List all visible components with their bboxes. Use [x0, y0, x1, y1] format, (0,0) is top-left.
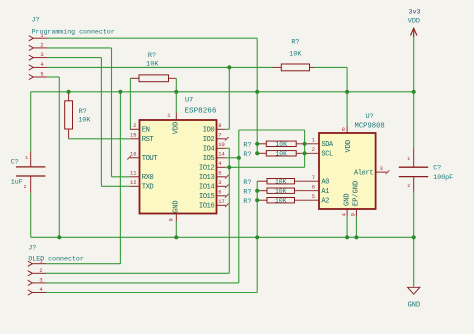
- svg-text:5: 5: [312, 194, 315, 200]
- op-amp U7 ESP8266 body: [140, 97, 217, 214]
- power symbol VDD 3v3: [408, 9, 421, 92]
- resistor R? 10K (A0 pull-down): [243, 179, 319, 187]
- wire pin5 to GND rail: [47, 77, 59, 237]
- U7 pin 2 EN: [130, 123, 150, 134]
- connector J? pin 3: [29, 52, 47, 60]
- svg-text:1: 1: [39, 258, 42, 264]
- wire IO5 lead and down to OLED pin3: [226, 158, 239, 283]
- svg-text:IO14: IO14: [199, 184, 214, 192]
- resistor R? 10K (A2 pull-down): [243, 198, 319, 206]
- svg-text:1uF: 1uF: [11, 178, 23, 185]
- U7 pin 6 IO15: [199, 190, 229, 201]
- U7 pin 4 IO12: [199, 161, 226, 172]
- svg-text:SDA: SDA: [321, 141, 334, 149]
- svg-text:1: 1: [167, 113, 170, 119]
- svg-text:2: 2: [39, 268, 42, 274]
- svg-text:2: 2: [40, 43, 43, 49]
- svg-text:11: 11: [130, 171, 136, 177]
- svg-text:EP/GND: EP/GND: [352, 181, 360, 206]
- connector J? (OLED) labels: [28, 245, 83, 263]
- U7 pin 16 TOUT: [127, 152, 158, 163]
- svg-text:2: 2: [407, 183, 410, 189]
- U? pin 1 SDA: [312, 138, 334, 150]
- wire EN vertical: [129, 78, 131, 129]
- wire IO4 down to IO12 junction and OLED pin2: [226, 148, 230, 273]
- svg-text:6: 6: [218, 190, 221, 196]
- U7 pin 12 TXD: [130, 180, 153, 191]
- connector J? pin 2: [29, 43, 47, 51]
- svg-text:7: 7: [218, 133, 221, 139]
- wire OLED pin4 to GND rail: [46, 237, 257, 292]
- svg-text:J?: J?: [32, 17, 40, 24]
- svg-text:9: 9: [168, 218, 174, 221]
- svg-text:10: 10: [218, 142, 224, 148]
- svg-text:1: 1: [407, 156, 410, 162]
- svg-text:2: 2: [24, 184, 27, 190]
- svg-text:16: 16: [130, 152, 136, 158]
- wire U? GND pins to rail: [347, 217, 356, 238]
- svg-text:C?: C?: [11, 159, 19, 166]
- svg-text:R?: R?: [243, 198, 251, 206]
- svg-text:3: 3: [39, 278, 42, 284]
- resistor R? 10K (SDA pull-up): [243, 141, 319, 149]
- svg-text:IO13: IO13: [199, 174, 214, 182]
- svg-text:TXD: TXD: [142, 184, 154, 192]
- OLED connector J? pin 1: [28, 258, 46, 266]
- svg-text:10K: 10K: [78, 117, 91, 125]
- U7 pin 7 IO2: [203, 133, 229, 144]
- U? pin 6 A1: [312, 185, 329, 197]
- wire OLED pin1 to VDD rail: [46, 92, 120, 264]
- wire IO0 up to pin4 net: [226, 67, 230, 129]
- svg-text:5: 5: [218, 171, 221, 177]
- connector J? pin 1: [29, 33, 47, 41]
- svg-text:R?: R?: [79, 108, 87, 116]
- svg-text:14: 14: [218, 152, 224, 158]
- U7 pin 10 IO4: [203, 142, 226, 153]
- svg-text:EN: EN: [142, 127, 150, 135]
- svg-text:J?: J?: [28, 245, 36, 252]
- svg-text:15: 15: [130, 133, 136, 139]
- svg-text:17: 17: [218, 199, 224, 205]
- svg-text:8: 8: [218, 123, 221, 129]
- resistor R? 10K (SCL pull-up): [243, 151, 319, 159]
- wire pin4 to resistor R? (IO0 net): [47, 66, 273, 68]
- U7 pin 9 GND: [168, 200, 180, 221]
- svg-text:VDD: VDD: [345, 140, 353, 153]
- svg-text:IO12: IO12: [199, 165, 214, 173]
- svg-text:A2: A2: [321, 198, 329, 206]
- svg-text:OLED connector: OLED connector: [28, 256, 83, 263]
- svg-text:5: 5: [40, 72, 43, 78]
- svg-text:6: 6: [312, 185, 315, 191]
- U7 pin 1 VDD: [167, 113, 180, 135]
- wire pin2 to RX0: [47, 48, 130, 177]
- resistor R? 10K (RST pull-up): [65, 92, 92, 139]
- wire IO12 lead: [226, 166, 230, 168]
- svg-text:IO5: IO5: [203, 155, 215, 163]
- connector J? pin 5: [29, 72, 47, 80]
- connector J? (programming) labels: [32, 17, 115, 36]
- U7 pin 8 IO0: [203, 123, 226, 134]
- svg-text:U7: U7: [185, 97, 193, 105]
- OLED connector J? pin 3: [28, 278, 46, 286]
- svg-text:10K: 10K: [275, 151, 287, 158]
- wire OLED pin3 to IO5 column: [46, 282, 239, 284]
- svg-text:GND: GND: [173, 200, 181, 213]
- svg-text:R?: R?: [243, 179, 251, 187]
- svg-text:10K: 10K: [275, 198, 287, 205]
- svg-text:4: 4: [39, 287, 42, 293]
- svg-text:4: 4: [341, 213, 347, 216]
- svg-text:IO0: IO0: [203, 127, 215, 135]
- svg-text:IO2: IO2: [203, 136, 215, 144]
- wire RST: [69, 138, 130, 140]
- svg-text:RX0: RX0: [142, 174, 154, 182]
- U? pin 4 GND: [341, 193, 351, 216]
- svg-text:10K: 10K: [275, 141, 287, 148]
- wire R-IO0 right to MCP VDD: [314, 67, 347, 126]
- svg-text:GND: GND: [408, 302, 421, 310]
- svg-text:10K: 10K: [275, 179, 287, 186]
- svg-text:Alert: Alert: [354, 170, 373, 178]
- svg-text:RST: RST: [142, 136, 155, 144]
- capacitor C? 1uF: [11, 92, 46, 238]
- svg-text:R?: R?: [243, 141, 251, 149]
- svg-text:3: 3: [218, 180, 221, 186]
- svg-text:3v3: 3v3: [408, 9, 420, 17]
- svg-text:SCL: SCL: [321, 151, 333, 159]
- U7 pin 15 RST: [130, 133, 154, 144]
- svg-text:9: 9: [351, 213, 357, 216]
- svg-text:10K: 10K: [275, 188, 287, 195]
- resistor R? 10K (EN pull-up): [130, 52, 176, 82]
- svg-text:IO15: IO15: [199, 193, 214, 201]
- svg-text:1: 1: [40, 33, 43, 39]
- OLED connector J? pin 4: [28, 287, 46, 295]
- svg-text:R?: R?: [291, 38, 299, 46]
- U? pin 2 SCL: [312, 147, 333, 159]
- U? pin 7 A0: [312, 175, 329, 187]
- svg-text:2: 2: [312, 147, 315, 153]
- capacitor C? 100pF: [399, 92, 453, 238]
- U? pin 9 EP/GND: [351, 181, 361, 217]
- wire A-resistors column to GND rail: [256, 181, 258, 237]
- svg-text:4: 4: [218, 161, 221, 167]
- ground: [408, 237, 421, 309]
- wire R-EN right to VDD pin: [175, 78, 177, 112]
- svg-text:VDD: VDD: [408, 17, 420, 25]
- svg-text:Programming connector: Programming connector: [32, 29, 115, 36]
- svg-text:R?: R?: [243, 151, 251, 159]
- svg-text:8: 8: [342, 127, 345, 133]
- OLED connector J? pin 2: [28, 268, 46, 276]
- svg-text:4: 4: [40, 62, 43, 68]
- svg-text:R?: R?: [148, 52, 156, 60]
- svg-text:10K: 10K: [146, 60, 159, 68]
- svg-text:1: 1: [312, 138, 315, 144]
- resistor R? 10K (A1 pull-down): [243, 188, 319, 196]
- U7 pin 5 IO13: [199, 171, 229, 182]
- connector J? pin 4: [29, 62, 47, 70]
- svg-text:R?: R?: [243, 188, 251, 196]
- U7 pin 11 RX0: [130, 171, 153, 182]
- wire OLED pin2 to IO4/IO12 column: [46, 272, 229, 274]
- U7 pin 17 IO16: [199, 199, 229, 210]
- svg-text:ESP8266: ESP8266: [185, 107, 217, 115]
- wire VDD rail: [31, 91, 414, 93]
- U7 pin 14 IO5: [203, 152, 226, 163]
- wire IO12 junction right to SDA/SCL column: [229, 130, 304, 167]
- wire pin1 to VDD/pullups (net 3v3): [47, 38, 257, 153]
- resistor R? 10K (IO0 pull-up): [273, 38, 315, 70]
- wire GND rail: [31, 236, 414, 238]
- svg-text:A0: A0: [321, 179, 329, 187]
- svg-text:A1: A1: [321, 188, 329, 196]
- U7 pin 3 IO14: [199, 180, 229, 191]
- U? pin 8 VDD: [342, 126, 353, 153]
- wire pin3 to TXD: [47, 58, 130, 187]
- svg-text:GND: GND: [344, 193, 352, 206]
- svg-text:IO16: IO16: [199, 203, 214, 211]
- svg-text:U?: U?: [366, 113, 374, 121]
- svg-text:10K: 10K: [289, 51, 302, 59]
- svg-text:MCP9808: MCP9808: [355, 123, 385, 131]
- U? pin 3 Alert: [354, 166, 389, 178]
- svg-text:2: 2: [133, 123, 136, 129]
- svg-text:C?: C?: [433, 165, 441, 172]
- U? pin 5 A2: [312, 194, 329, 206]
- svg-text:12: 12: [130, 180, 136, 186]
- svg-text:3: 3: [40, 52, 43, 58]
- svg-text:7: 7: [312, 175, 315, 181]
- svg-text:IO4: IO4: [203, 146, 215, 154]
- svg-text:3: 3: [380, 166, 383, 172]
- wire U7 GND to rail: [175, 221, 177, 237]
- op-amp U? MCP9808 body: [319, 113, 385, 209]
- svg-text:VDD: VDD: [173, 122, 181, 135]
- svg-text:100pF: 100pF: [433, 174, 453, 181]
- svg-text:TOUT: TOUT: [142, 155, 158, 163]
- svg-text:1: 1: [25, 155, 28, 161]
